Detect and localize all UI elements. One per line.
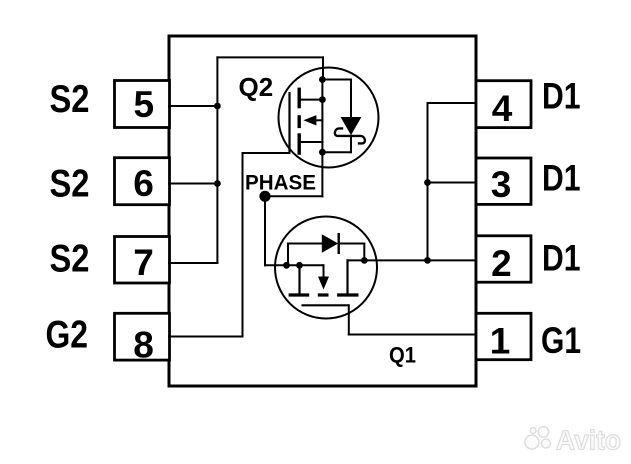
wire PHASE drop to Q1: [264, 196, 266, 265]
svg-text:D1: D1: [542, 75, 581, 117]
wire PHASE to Q1 source line: [265, 264, 324, 266]
wire S2 bus drop to Q2 source: [322, 57, 324, 80]
Q1 channel dash right: [337, 293, 358, 296]
transistor Q2: [279, 68, 379, 168]
svg-text:S2: S2: [50, 162, 90, 205]
svg-text:D1: D1: [542, 237, 581, 279]
junction Q1 source B: [296, 262, 303, 269]
wire Q1 drain to pin2: [364, 259, 476, 261]
pin 2 box: [476, 236, 531, 282]
Q2 channel dash bottom: [298, 133, 301, 155]
Q2 body diode D2 triangle: [341, 117, 362, 135]
svg-text:G1: G1: [541, 319, 581, 361]
Q2 internal bus: [321, 80, 323, 153]
junction Q2 top: [319, 76, 326, 83]
Q1 channel dash middle: [318, 293, 329, 296]
svg-text:G2: G2: [46, 314, 89, 357]
junction Q2 drain: [319, 96, 326, 103]
IC package outline: [169, 36, 476, 386]
junction Q1 drain: [361, 257, 368, 264]
Q1 body diode cathode bar: [338, 233, 340, 254]
Q2 body circle: [279, 68, 379, 168]
Q1 source contact: [298, 265, 300, 293]
Q1 gate line: [302, 304, 349, 306]
svg-text:2: 2: [491, 243, 512, 284]
Q1 body circle: [275, 217, 377, 319]
svg-text:1: 1: [490, 320, 511, 361]
pin 5 box: [115, 81, 170, 128]
Q2 body diode schottky cathode bar: [335, 128, 365, 143]
svg-text:PHASE: PHASE: [245, 170, 316, 194]
watermark logo circle small bottom-right: [541, 439, 550, 448]
wire pin7 to S2 bus: [169, 262, 217, 264]
Q1 body arrow: [318, 277, 329, 290]
Q1 body diode cathode horizontal: [339, 243, 365, 245]
junction D1-bus/pin2 wire: [424, 257, 431, 264]
Q2 body connection: [314, 119, 322, 121]
svg-text:Avito: Avito: [556, 425, 621, 456]
wire D1 bus vertical: [427, 103, 429, 260]
Q2 gate electrode: [288, 92, 290, 152]
Q1 body diode anode horizontal: [288, 243, 322, 245]
Q1 body diode cathode drop: [363, 244, 365, 261]
svg-text:Q2: Q2: [239, 72, 274, 102]
Q2 body diode anode lead: [350, 80, 352, 118]
wire pin8 to G2 riser: [169, 336, 243, 338]
Q2 body arrow: [303, 115, 316, 125]
pin 6 box: [115, 158, 170, 205]
watermark logo circle big: [525, 435, 539, 449]
watermark logo circle medium top-right: [538, 427, 549, 438]
Q2 body diode cathode lead: [350, 137, 352, 153]
pin 1 box: [476, 313, 531, 359]
svg-text:Q1: Q1: [389, 343, 416, 368]
pin 3 box: [476, 158, 531, 204]
Q1 drain contact: [346, 260, 348, 293]
svg-text:D1: D1: [542, 157, 581, 199]
svg-text:S2: S2: [50, 238, 90, 281]
wire Q1 gate drop: [348, 305, 350, 334]
wire G2 to Q2 gate: [243, 152, 290, 154]
svg-text:8: 8: [133, 324, 154, 365]
Q2 channel dash top: [298, 88, 301, 109]
wire PHASE horizontal: [265, 195, 322, 197]
svg-text:6: 6: [133, 163, 154, 204]
Q1 body diode anode lead: [287, 244, 289, 266]
wire pin6 to S2 bus: [169, 183, 217, 185]
Q2 drain connection: [299, 99, 322, 101]
wire pin5 to S2 bus: [169, 105, 217, 107]
wire G2 riser vertical: [242, 153, 244, 337]
Q1 body stub: [323, 265, 325, 277]
junction pin3/D1-bus: [424, 179, 431, 186]
wire S2 bus vertical: [216, 57, 218, 263]
Q2 body diode branch bottom: [322, 151, 351, 153]
junction Q2 bottom: [319, 149, 326, 156]
svg-text:3: 3: [491, 164, 512, 205]
svg-text:S2: S2: [50, 78, 90, 121]
wire S2 bus top horizontal: [217, 56, 323, 58]
svg-text:5: 5: [134, 84, 155, 125]
svg-text:7: 7: [133, 242, 154, 283]
Q1 drain inner horizontal: [348, 259, 365, 261]
pin 7 box: [115, 237, 170, 284]
svg-text:4: 4: [492, 88, 513, 129]
wire pin3 to D1 bus: [428, 182, 477, 184]
Q2 channel dash middle: [298, 115, 301, 128]
node PHASE: [259, 191, 270, 202]
pin 4 box: [476, 81, 531, 128]
watermark logo circle small top-left: [530, 428, 536, 434]
junction Q1 source A: [283, 262, 290, 269]
wire pin4 to D1 bus: [428, 102, 477, 104]
Q1 channel dash left: [289, 293, 310, 296]
junction pin5/S2-bus: [214, 103, 221, 110]
Q2 body diode branch top: [322, 79, 351, 81]
pin 8 box: [115, 313, 170, 360]
wire Q1 gate to pin1: [349, 334, 476, 336]
Q1 body diode D1 triangle: [322, 234, 338, 253]
Q2 source connection: [299, 141, 322, 143]
junction pin6/S2-bus: [214, 180, 221, 187]
wire Q2 source-bottom to PHASE: [321, 152, 323, 196]
transistor Q1: [275, 217, 377, 319]
